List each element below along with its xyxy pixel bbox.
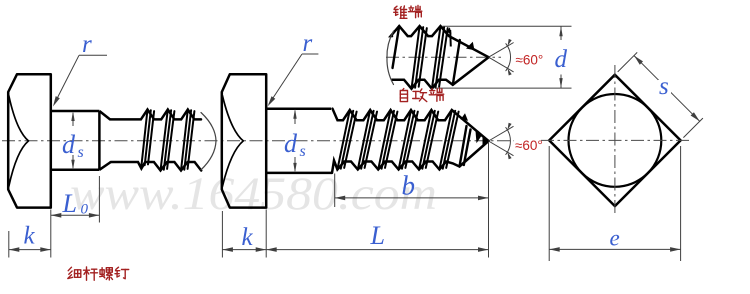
dimension e xyxy=(548,146,550,261)
svg-text:s: s xyxy=(78,144,84,161)
angle 60 deg cone end xyxy=(489,43,514,58)
cone end detail thread flanks xyxy=(393,26,400,68)
label thin-shank screw (xi gan luo ding) xyxy=(68,267,71,271)
svg-text:d: d xyxy=(62,130,76,159)
dimension k left xyxy=(8,231,10,258)
svg-text:s: s xyxy=(659,73,669,100)
middle screw shank d_s xyxy=(266,107,331,110)
svg-text:b: b xyxy=(402,171,416,201)
dimension L0 xyxy=(98,176,100,223)
left screw hex head xyxy=(8,74,51,207)
cone end detail thread outline xyxy=(391,26,489,57)
square head outline xyxy=(549,75,680,206)
inscribed circle xyxy=(569,94,662,187)
svg-text:0: 0 xyxy=(81,202,89,218)
middle screw thread outline xyxy=(333,109,489,141)
middle screw hex head xyxy=(222,74,266,207)
dimension k middle xyxy=(221,211,223,258)
svg-text:r: r xyxy=(303,30,313,57)
dimension b xyxy=(334,174,336,208)
label cone end (zhui duan) xyxy=(394,6,397,8)
middle screw cone point threads xyxy=(460,126,467,167)
svg-text:d: d xyxy=(555,46,568,73)
centerline main axis xyxy=(2,140,514,142)
svg-text:≈60°: ≈60° xyxy=(516,53,544,68)
dimension d xyxy=(442,25,571,27)
svg-text:r: r xyxy=(82,31,92,58)
dimension L xyxy=(488,143,490,258)
dimension s xyxy=(618,52,638,72)
svg-text:e: e xyxy=(610,226,620,251)
dimension d_s middle xyxy=(294,111,296,124)
svg-text:k: k xyxy=(24,223,36,250)
square centerline vertical xyxy=(614,65,616,214)
left screw thread outline xyxy=(110,110,201,120)
dimension d_s left xyxy=(72,113,74,126)
svg-text:k: k xyxy=(242,224,254,251)
left screw break line xyxy=(201,113,216,170)
cone end detail break line xyxy=(387,31,394,85)
angle 60 deg screw point xyxy=(489,126,514,141)
middle screw thread flanks xyxy=(337,110,349,170)
svg-text:s: s xyxy=(300,143,306,160)
centerline detail axis xyxy=(386,56,501,58)
svg-text:d: d xyxy=(284,129,298,158)
svg-text:L: L xyxy=(62,189,77,218)
label self-tapping end (zi gong duan) xyxy=(403,89,404,91)
svg-text:L: L xyxy=(370,221,385,250)
square centerline horizontal xyxy=(541,139,689,141)
left screw thread flanks xyxy=(141,110,147,167)
svg-text:≈60°: ≈60° xyxy=(515,138,543,153)
left screw shank d_s xyxy=(51,110,100,113)
svg-text:www.164580.com: www.164580.com xyxy=(70,168,437,220)
